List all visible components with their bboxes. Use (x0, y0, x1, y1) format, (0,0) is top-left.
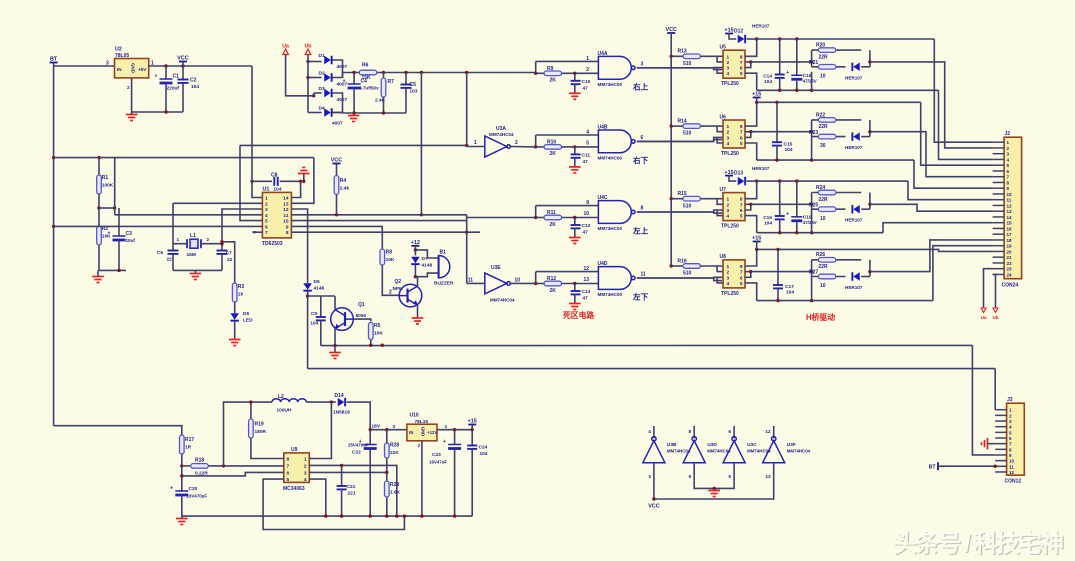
svg-text:47: 47 (583, 230, 589, 236)
ground (126, 115, 138, 121)
wire network left bar (811, 50, 813, 67)
svg-text:C5: C5 (410, 82, 417, 88)
svg-text:2: 2 (515, 140, 518, 146)
wire pin6 link (745, 62, 751, 68)
svg-text:C2: C2 (190, 78, 197, 84)
svg-text:J3: J3 (1007, 397, 1013, 403)
svg-text:8: 8 (689, 429, 692, 435)
svg-text:IN: IN (409, 430, 413, 435)
junction (164, 64, 167, 67)
wire (98, 158, 100, 175)
wire (336, 195, 338, 215)
wire J3 pin 7 stub (995, 443, 1006, 445)
wire vertical bus (466, 73, 468, 146)
wire (454, 430, 456, 445)
resistor R20 22R (818, 48, 836, 53)
wire U9 pin2 (309, 465, 397, 516)
ground (298, 168, 310, 174)
junction (414, 275, 417, 278)
svg-text:1: 1 (1009, 408, 1012, 413)
svg-text:1R: 1R (185, 445, 192, 451)
wire D14 to 18V node (347, 402, 371, 430)
wire ch3 +15 to J2 pin11 (908, 181, 993, 200)
wire J2 pin 13 stub (993, 210, 1005, 212)
diode D3 4007 (324, 89, 331, 98)
wire output stub (773, 426, 775, 439)
svg-text:4.7uf/50v: 4.7uf/50v (359, 86, 379, 91)
svg-text:D4: D4 (319, 106, 325, 112)
capacitor C20 16V470uF (170, 486, 188, 497)
wire (671, 198, 683, 200)
wire (353, 90, 355, 114)
svg-text:12: 12 (283, 207, 289, 213)
wire (414, 246, 416, 256)
svg-text:3: 3 (1007, 152, 1010, 157)
svg-text:7: 7 (287, 463, 290, 469)
svg-text:78L15: 78L15 (415, 419, 429, 425)
wire ch3 out to J2 pin13 (870, 204, 993, 211)
wire U9 pin4 (309, 479, 326, 516)
wire gnd rail ch1 (757, 89, 939, 91)
junction (573, 145, 576, 148)
wire to pin1 (700, 125, 723, 127)
svg-text:MM74HC00: MM74HC00 (598, 82, 623, 87)
svg-text:BUZZER: BUZZER (434, 281, 454, 287)
wire C8 to pin14 (291, 181, 300, 197)
wire (536, 217, 544, 219)
svg-text:8: 8 (287, 457, 290, 463)
wire D1-D2 link (332, 60, 343, 78)
wire collector (417, 277, 419, 286)
wire J2 pin 1 stub (993, 141, 1005, 143)
wire (405, 73, 407, 85)
wire D3-D4 link (332, 93, 343, 113)
wire oscillator drive rail (240, 144, 467, 146)
wire (729, 176, 736, 182)
diode D8 HER107 (852, 63, 859, 72)
svg-text:22: 22 (167, 257, 173, 263)
wire pin6 (54, 225, 263, 227)
wire network right bar (869, 120, 871, 137)
svg-text:U4D: U4D (598, 261, 608, 267)
svg-text:22: 22 (227, 257, 233, 263)
svg-text:HER107: HER107 (845, 75, 863, 80)
svg-text:22R: 22R (819, 54, 829, 60)
junction (810, 270, 813, 273)
junction (250, 180, 253, 183)
resistor R26 22R (818, 258, 836, 263)
wire pin11 (291, 214, 421, 216)
wire J3 pin 4 stub (995, 426, 1006, 428)
svg-text:10uf: 10uf (126, 238, 136, 243)
wire ch2 out to J2 pin7 (870, 132, 993, 177)
junction (306, 294, 309, 297)
svg-text:L2: L2 (278, 394, 284, 400)
svg-text:+12V: +12V (427, 430, 437, 435)
svg-text:2K: 2K (550, 78, 557, 84)
wire (98, 194, 100, 208)
wire input link (535, 61, 537, 73)
capacitor C5 103 (401, 85, 412, 88)
diode D4 4007 (324, 108, 331, 117)
junction (52, 225, 55, 228)
svg-text:104: 104 (274, 187, 282, 193)
svg-text:25V470uF: 25V470uF (348, 443, 369, 448)
resistor R17 1R (180, 435, 185, 454)
svg-text:4: 4 (648, 429, 651, 435)
junction (340, 514, 343, 517)
wire opto output (751, 131, 812, 133)
svg-text:R14: R14 (678, 119, 687, 125)
wire pin3-pin4 link (717, 210, 723, 216)
wire J3 pin 9 stub (995, 454, 1006, 456)
svg-text:Q2: Q2 (395, 279, 402, 285)
junction (381, 344, 384, 347)
svg-text:6: 6 (641, 135, 644, 141)
resistor R5 10K (369, 323, 374, 340)
wire R2 to ground (99, 245, 126, 270)
junction (652, 497, 655, 500)
svg-text:J2: J2 (1005, 131, 1011, 137)
svg-text:9: 9 (689, 474, 692, 480)
svg-text:8: 8 (740, 197, 743, 203)
wire J2 pin 22 stub (993, 262, 1005, 264)
svg-text:3: 3 (304, 470, 307, 476)
svg-text:U10: U10 (410, 413, 419, 419)
svg-text:R3: R3 (238, 284, 245, 290)
wire f10 to J2 pin20 (757, 249, 993, 251)
capacitor C4 4.7uf/50v (343, 79, 361, 90)
svg-text:C9: C9 (311, 311, 317, 317)
wire input stub (773, 463, 775, 481)
wire pin10 (291, 220, 466, 222)
wire U3A out (511, 146, 536, 148)
svg-text:R29: R29 (390, 482, 399, 488)
wire (747, 38, 757, 40)
svg-text:2: 2 (265, 201, 268, 207)
wire (114, 158, 116, 215)
junction (369, 344, 372, 347)
svg-text:TPL250: TPL250 (721, 224, 739, 230)
svg-text:CON24: CON24 (1002, 283, 1019, 289)
wire J2 pin 4 stub (993, 158, 1005, 160)
svg-text:1: 1 (304, 457, 307, 463)
wire spare input tie (654, 480, 774, 499)
wire pin6 link (745, 204, 751, 210)
capacitor C21 221 (337, 486, 347, 489)
ground (229, 340, 241, 346)
wire +5V rail (149, 65, 252, 67)
wire (321, 345, 335, 347)
resistor R9 2K (544, 71, 562, 76)
capacitor C1 220uf (155, 74, 173, 85)
svg-text:C21: C21 (347, 484, 356, 490)
wire pin1-pin2 link (717, 126, 723, 132)
wire J2 pin24 to probe (993, 274, 996, 308)
wire (671, 55, 683, 57)
capacitor C2 104 (178, 80, 189, 83)
wire input 1 (536, 60, 599, 62)
wire ch1 gnd to J2 pin4 (939, 90, 993, 159)
svg-text:+: + (108, 231, 111, 237)
junction (810, 60, 813, 63)
svg-text:R9: R9 (547, 66, 554, 72)
inverter U3F MM74HC04 (763, 437, 785, 463)
svg-text:2: 2 (207, 237, 210, 242)
svg-text:HER107: HER107 (752, 24, 770, 29)
junction (465, 144, 468, 147)
capacitor C15 104 (772, 142, 782, 145)
svg-text:22K: 22K (390, 450, 399, 456)
wire J3 pin 12 stub (995, 471, 1006, 473)
svg-text:H桥驱动: H桥驱动 (806, 312, 835, 322)
wire emitter (417, 305, 419, 318)
svg-text:R28: R28 (390, 443, 399, 449)
wire (182, 62, 184, 67)
wire (250, 402, 252, 419)
wire U4C out to U7 (637, 212, 722, 213)
resistor R27 10 (818, 274, 836, 279)
svg-text:8: 8 (1007, 180, 1010, 185)
svg-text:1: 1 (727, 124, 730, 130)
diode D6 4148 (303, 283, 312, 290)
svg-text:7: 7 (265, 230, 268, 236)
svg-text:2: 2 (418, 443, 421, 448)
svg-text:13: 13 (583, 277, 589, 283)
wire f4 to J2 pin5 (921, 102, 993, 165)
svg-text:U3F: U3F (787, 442, 796, 448)
svg-text:C10: C10 (582, 79, 591, 85)
svg-text:13: 13 (765, 474, 771, 480)
wire input stub (653, 463, 655, 481)
capacitor C11 47 (571, 154, 581, 157)
svg-text:MM74HC00: MM74HC00 (598, 226, 623, 231)
wire pin1-pin2 link (717, 56, 723, 62)
svg-text:MM74HC00: MM74HC00 (598, 292, 623, 297)
svg-text:8050: 8050 (356, 313, 367, 319)
svg-text:R20: R20 (816, 43, 825, 49)
svg-text:D13: D13 (734, 170, 743, 176)
capacitor C13 47 (571, 291, 581, 294)
wire J2 pin 11 stub (993, 199, 1005, 201)
svg-text:D14: D14 (335, 393, 344, 399)
svg-text:U3C: U3C (747, 442, 757, 448)
wire to buzzer top (415, 250, 438, 258)
wire Ua (286, 55, 314, 96)
wire VCC distribution rail (670, 33, 672, 266)
wire (99, 207, 115, 209)
svg-text:4: 4 (727, 71, 730, 77)
wire J2 pin 7 stub (993, 176, 1005, 178)
svg-text:BT: BT (929, 464, 937, 470)
svg-text:3: 3 (641, 61, 644, 67)
junction (385, 471, 388, 474)
svg-text:10: 10 (283, 219, 289, 225)
svg-text:11: 11 (1009, 464, 1014, 469)
wire (777, 249, 779, 285)
junction (453, 428, 456, 431)
svg-text:7: 7 (740, 60, 743, 66)
wire (313, 93, 315, 96)
diode D1 4007 (324, 56, 331, 65)
wire base (354, 319, 371, 321)
junction (534, 145, 537, 148)
wire opto output (751, 61, 812, 63)
capacitor C7 22 (217, 251, 228, 254)
svg-text:6: 6 (1009, 436, 1012, 441)
svg-text:左上: 左上 (632, 226, 649, 236)
svg-text:6: 6 (728, 429, 731, 435)
svg-text:1: 1 (177, 237, 180, 242)
port +15 (724, 170, 733, 176)
wire (574, 73, 576, 81)
wire network left bar (811, 260, 813, 277)
svg-text:12: 12 (1007, 203, 1013, 208)
wire (383, 97, 385, 113)
svg-text:+5V: +5V (138, 67, 147, 72)
junction (453, 514, 456, 517)
svg-text:16V47uF: 16V47uF (429, 460, 447, 465)
svg-text:R1: R1 (102, 175, 109, 181)
svg-text:R12: R12 (547, 276, 556, 282)
port +15 (752, 236, 761, 242)
wire network to rail (811, 277, 813, 301)
svg-text:10: 10 (820, 283, 826, 289)
wire (471, 449, 473, 516)
wire U9 pin3 (309, 471, 387, 473)
junction (755, 101, 758, 104)
junction (222, 464, 225, 467)
wire input link (535, 135, 537, 147)
svg-text:6: 6 (740, 66, 743, 72)
wire (131, 112, 133, 115)
svg-text:右上: 右上 (633, 81, 649, 91)
resistor R12 2K (544, 281, 562, 286)
svg-text:MM74HC04: MM74HC04 (490, 298, 515, 303)
junction (573, 282, 576, 285)
wire J3 pin 6 stub (995, 437, 1006, 439)
junction (306, 60, 309, 63)
port BT bar (937, 462, 939, 470)
wire to pin8 (745, 181, 757, 199)
svg-text:1: 1 (445, 424, 448, 430)
wire crystal to pin3 (222, 209, 262, 244)
inverter U3B MM74HC04 (643, 437, 665, 463)
svg-text:12: 12 (583, 266, 589, 272)
wire J3 pin 3 stub (995, 420, 1006, 422)
wire gnd rail ch3 (757, 232, 883, 234)
wire Ub (307, 55, 309, 62)
junction (795, 231, 798, 234)
diode D14 1N5819 (338, 398, 345, 407)
wire BT to R17 (54, 426, 182, 436)
port BT (50, 57, 58, 63)
svg-text:BT: BT (50, 57, 58, 63)
svg-text:4007: 4007 (332, 121, 343, 127)
capacitor C3 10uf (108, 231, 126, 242)
port +15 (468, 419, 477, 425)
svg-text:13: 13 (283, 201, 289, 207)
wire pin7 stub (745, 131, 751, 133)
wire +15 to pin8 (745, 98, 757, 127)
wire U10 gnd (421, 441, 423, 516)
diode D7 4148 (411, 257, 420, 264)
wire f12 to J2 pin19 (933, 246, 993, 301)
svg-text:C7: C7 (226, 251, 232, 257)
svg-text:6: 6 (740, 275, 743, 281)
svg-text:8: 8 (641, 206, 644, 212)
wire (334, 296, 336, 310)
svg-text:MM74HC04: MM74HC04 (489, 132, 514, 137)
wire (181, 454, 183, 491)
wire pin6 link (745, 272, 751, 278)
wire pin3-pin4 link (717, 68, 723, 74)
svg-text:4: 4 (265, 213, 268, 219)
svg-text:47/25V: 47/25V (803, 220, 817, 225)
svg-text:+: + (170, 486, 173, 492)
svg-text:5: 5 (740, 71, 743, 77)
svg-text:104: 104 (764, 220, 772, 226)
wire +15 to pin8 (745, 242, 757, 267)
wire network to rail (811, 72, 813, 91)
junction (352, 71, 355, 74)
junction (778, 231, 781, 234)
svg-text:C23: C23 (432, 452, 441, 458)
svg-text:2: 2 (127, 85, 130, 90)
resistor R2 10K (97, 226, 102, 245)
svg-text:R23: R23 (809, 130, 818, 136)
svg-text:103: 103 (410, 89, 418, 95)
wire bridge ground rail (343, 112, 407, 114)
svg-text:左下: 左下 (632, 292, 649, 302)
svg-text:U4A: U4A (598, 51, 608, 57)
capacitor C10 47 (571, 81, 581, 84)
crystal L1 16M (187, 239, 201, 248)
wire pin3-pin4 link (717, 277, 723, 283)
junction (776, 299, 779, 302)
junction (352, 111, 355, 114)
junction (465, 71, 468, 74)
svg-text:Ua: Ua (282, 44, 289, 50)
wire BT vertical bus (53, 66, 55, 426)
port +15 (752, 92, 761, 98)
wire long rail B (308, 368, 996, 370)
svg-text:U6: U6 (720, 114, 727, 120)
svg-text:HER107: HER107 (845, 145, 863, 150)
wire (574, 84, 576, 93)
svg-text:10: 10 (820, 216, 826, 222)
wire gnd to J3 pin7 (988, 443, 996, 445)
svg-text:100UH: 100UH (277, 408, 292, 414)
svg-text:R10: R10 (547, 139, 556, 145)
svg-text:10: 10 (1009, 459, 1015, 464)
wire (421, 214, 466, 216)
wire U4B out to U6 (637, 140, 722, 142)
svg-text:头条号 / 科技宅神: 头条号 / 科技宅神 (893, 529, 1064, 557)
svg-text:R24: R24 (816, 185, 825, 191)
wire (812, 119, 862, 121)
svg-text:+15: +15 (468, 419, 477, 425)
wire pin12 to D6 (291, 209, 307, 283)
wire U9 pin5 loop (263, 479, 404, 529)
wire (729, 34, 736, 40)
svg-text:23: 23 (1007, 267, 1013, 272)
ground (982, 438, 988, 450)
wire to pin1 (700, 198, 723, 200)
resistor R25 10 (818, 207, 836, 212)
junction (385, 514, 388, 517)
NAND gate U4D MM74HC00 (598, 267, 635, 290)
